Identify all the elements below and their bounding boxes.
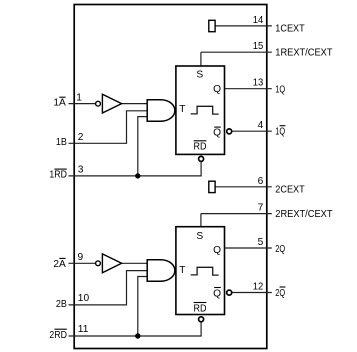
svg-text:4: 4: [258, 120, 264, 131]
svg-text:2B: 2B: [56, 299, 67, 310]
svg-text:Q: Q: [213, 128, 221, 139]
svg-text:9: 9: [78, 252, 84, 263]
svg-text:2A: 2A: [53, 259, 66, 270]
svg-text:14: 14: [253, 15, 264, 26]
svg-text:1CEXT: 1CEXT: [275, 24, 304, 35]
svg-text:1B: 1B: [56, 137, 67, 148]
svg-text:Q: Q: [213, 245, 221, 256]
svg-text:5: 5: [258, 237, 264, 248]
svg-text:1Q: 1Q: [275, 85, 285, 96]
svg-text:T: T: [179, 104, 185, 115]
svg-text:2Q: 2Q: [275, 244, 285, 255]
svg-text:2RD: 2RD: [49, 330, 67, 341]
svg-text:11: 11: [78, 324, 89, 335]
svg-text:T: T: [179, 265, 185, 276]
svg-text:1: 1: [76, 92, 82, 103]
svg-text:12: 12: [253, 282, 264, 293]
svg-text:10: 10: [78, 293, 90, 304]
svg-text:2Q: 2Q: [275, 288, 285, 299]
svg-text:1REXT/CEXT: 1REXT/CEXT: [275, 47, 332, 58]
svg-text:13: 13: [253, 78, 264, 89]
svg-text:6: 6: [258, 176, 264, 187]
svg-text:1Q: 1Q: [275, 127, 285, 138]
svg-text:3: 3: [78, 165, 84, 176]
svg-text:Q: Q: [213, 289, 221, 300]
svg-text:15: 15: [253, 41, 264, 52]
svg-text:2: 2: [78, 132, 84, 143]
svg-text:RD: RD: [194, 303, 207, 314]
svg-text:S: S: [196, 70, 203, 81]
svg-text:7: 7: [258, 203, 264, 214]
svg-text:1RD: 1RD: [49, 170, 67, 181]
svg-text:Q: Q: [213, 84, 221, 95]
svg-text:2CEXT: 2CEXT: [275, 185, 304, 196]
svg-text:1A: 1A: [53, 98, 66, 109]
svg-text:RD: RD: [194, 142, 207, 153]
svg-text:2REXT/CEXT: 2REXT/CEXT: [275, 209, 332, 220]
svg-text:S: S: [196, 231, 203, 242]
